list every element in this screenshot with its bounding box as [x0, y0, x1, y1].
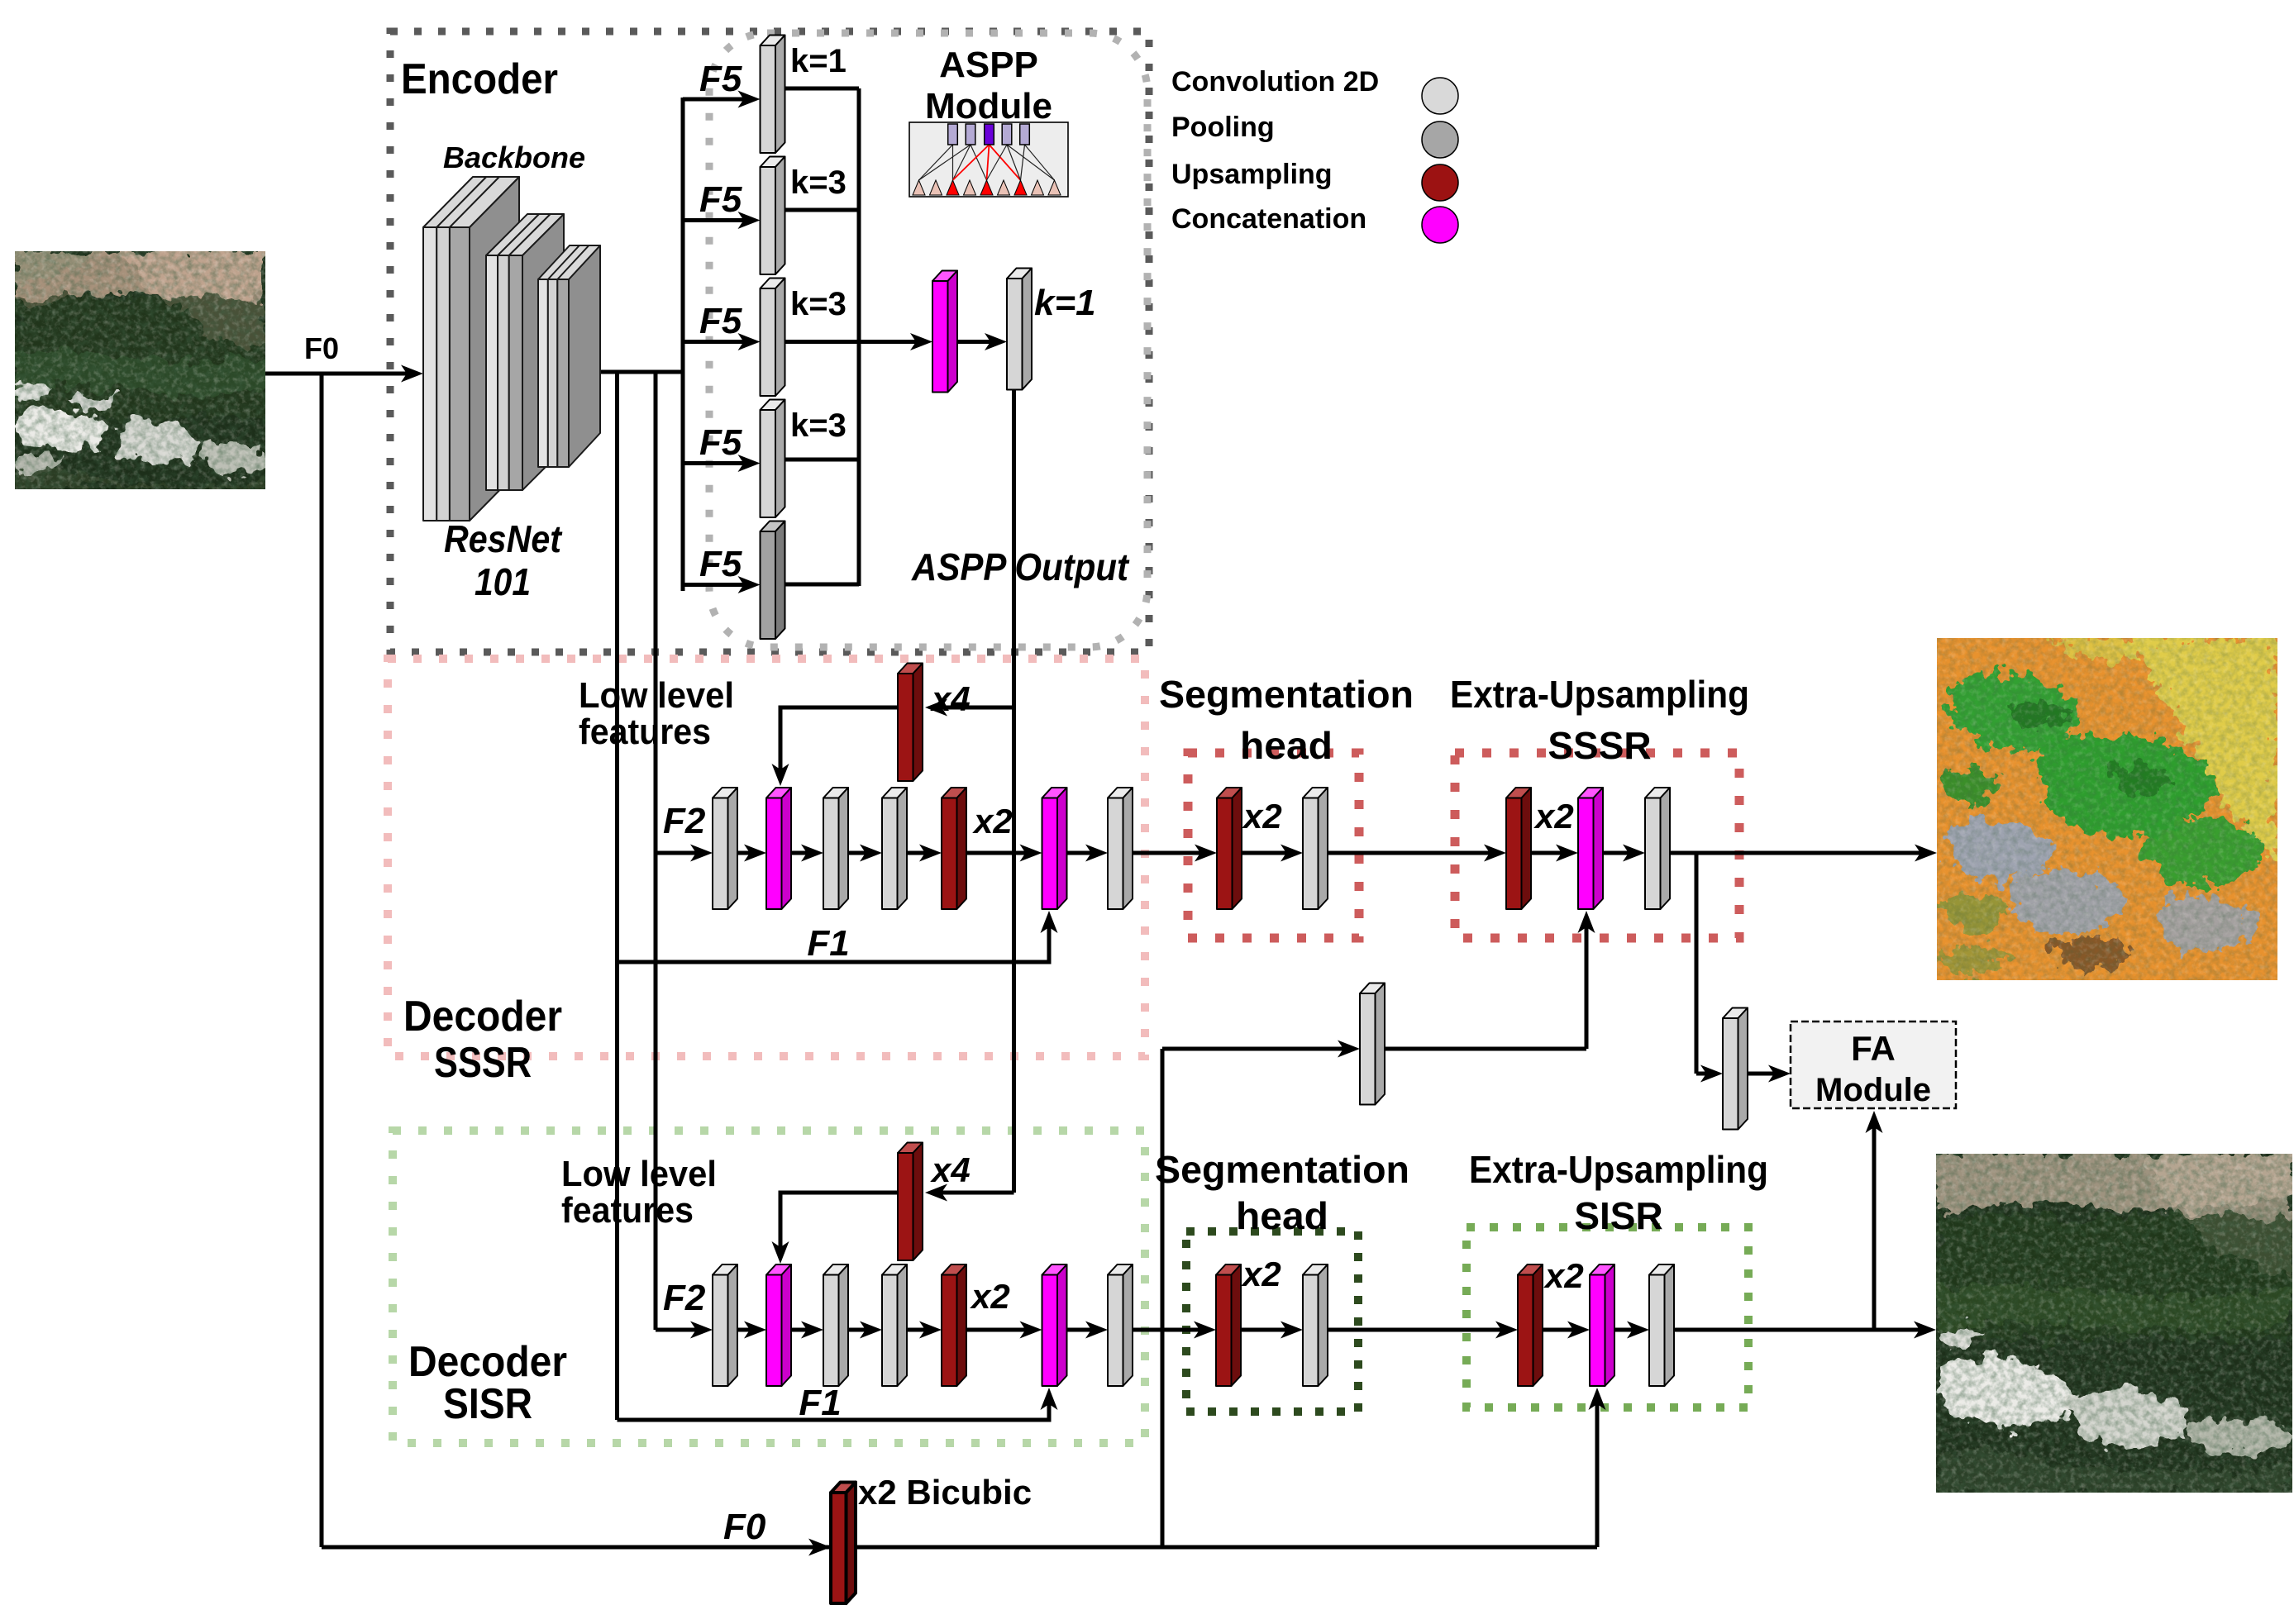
svg-text:Convolution 2D: Convolution 2D: [1171, 66, 1379, 98]
svg-text:features: features: [561, 1190, 694, 1231]
svg-text:x2 Bicubic: x2 Bicubic: [858, 1473, 1032, 1512]
svg-text:Extra-Upsampling: Extra-Upsampling: [1450, 673, 1749, 716]
svg-text:Segmentation: Segmentation: [1155, 1148, 1409, 1191]
svg-text:F1: F1: [807, 923, 849, 964]
svg-text:x2: x2: [1533, 797, 1574, 836]
svg-text:SISR: SISR: [1574, 1194, 1662, 1237]
svg-text:k=3: k=3: [790, 407, 847, 444]
svg-text:Decoder: Decoder: [408, 1338, 567, 1386]
svg-text:x4: x4: [930, 679, 971, 718]
svg-text:Module: Module: [925, 86, 1052, 126]
svg-text:x4: x4: [930, 1150, 971, 1189]
svg-text:SISR: SISR: [443, 1380, 532, 1428]
svg-text:Pooling: Pooling: [1171, 112, 1275, 143]
svg-text:F0: F0: [723, 1507, 766, 1547]
svg-text:101: 101: [475, 560, 531, 603]
svg-text:x2: x2: [970, 1277, 1010, 1316]
svg-text:Encoder: Encoder: [401, 55, 558, 103]
svg-text:F5: F5: [699, 179, 742, 220]
svg-text:F0: F0: [304, 331, 339, 365]
svg-text:F2: F2: [663, 801, 706, 841]
svg-text:Upsampling: Upsampling: [1171, 159, 1333, 190]
svg-text:k=1: k=1: [1034, 283, 1096, 323]
svg-text:F2: F2: [663, 1278, 706, 1318]
svg-text:k=3: k=3: [790, 286, 847, 322]
svg-text:Concatenation: Concatenation: [1171, 203, 1366, 235]
svg-text:ResNet: ResNet: [444, 517, 562, 560]
svg-text:features: features: [579, 712, 711, 752]
svg-text:head: head: [1240, 724, 1333, 767]
svg-text:Extra-Upsampling: Extra-Upsampling: [1469, 1148, 1768, 1191]
svg-text:F5: F5: [699, 544, 742, 584]
svg-text:Backbone: Backbone: [443, 140, 585, 174]
svg-text:F5: F5: [699, 422, 742, 463]
svg-text:x2: x2: [1242, 797, 1282, 836]
svg-text:F5: F5: [699, 301, 742, 341]
svg-text:F1: F1: [799, 1383, 841, 1423]
svg-text:x2: x2: [1241, 1255, 1281, 1293]
svg-text:k=1: k=1: [790, 43, 847, 79]
svg-text:head: head: [1236, 1194, 1328, 1237]
svg-text:Low level: Low level: [561, 1154, 717, 1194]
svg-text:Low level: Low level: [579, 675, 734, 716]
svg-text:Segmentation: Segmentation: [1159, 673, 1414, 716]
svg-text:ASPP: ASPP: [939, 45, 1038, 85]
svg-text:FA: FA: [1851, 1029, 1896, 1068]
svg-text:ASPP Output: ASPP Output: [911, 545, 1129, 588]
svg-text:x2: x2: [972, 802, 1013, 841]
svg-text:x2: x2: [1543, 1256, 1584, 1295]
svg-text:SSSR: SSSR: [434, 1039, 532, 1087]
svg-text:k=3: k=3: [790, 164, 847, 201]
svg-text:Module: Module: [1815, 1072, 1931, 1108]
svg-text:SSSR: SSSR: [1548, 724, 1651, 767]
svg-text:F5: F5: [699, 59, 742, 99]
svg-text:Decoder: Decoder: [403, 993, 562, 1041]
